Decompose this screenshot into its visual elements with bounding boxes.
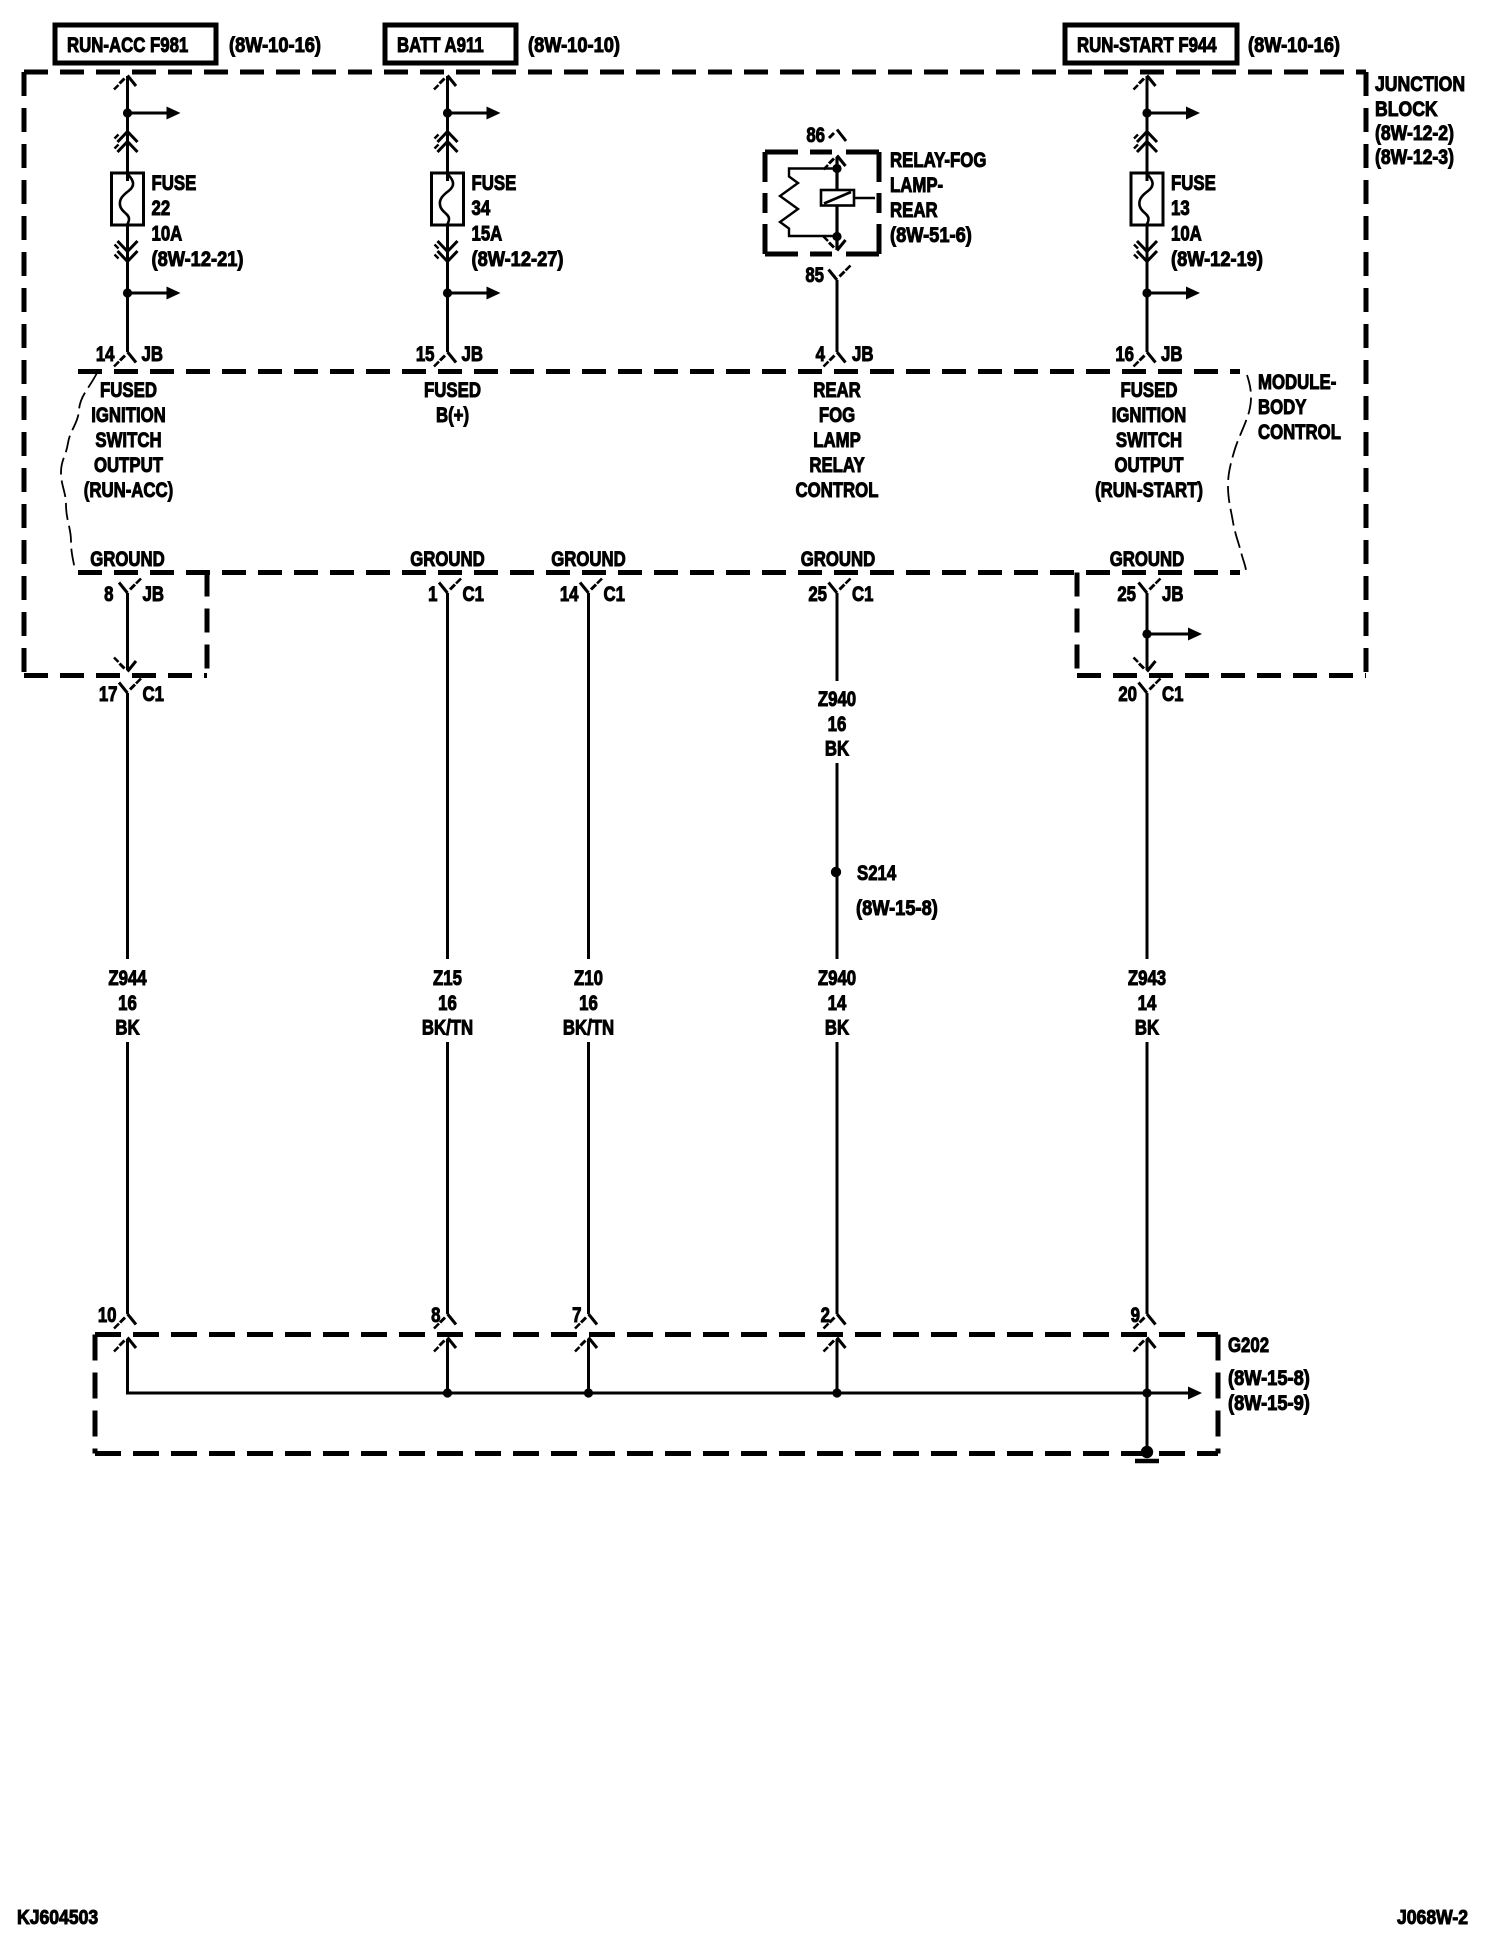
- fuse 34 label: [472, 172, 564, 271]
- svg-text:C1: C1: [604, 583, 626, 606]
- svg-text:Z940: Z940: [818, 967, 856, 990]
- pin 20 C1: [1118, 679, 1184, 707]
- pin 15 JB: [416, 343, 483, 366]
- svg-text:OUTPUT: OUTPUT: [1114, 454, 1183, 477]
- pin 2 (G202): [821, 1304, 846, 1328]
- svg-text:RELAY-FOG: RELAY-FOG: [890, 149, 986, 172]
- svg-text:14: 14: [560, 583, 579, 606]
- svg-text:BK: BK: [115, 1017, 139, 1040]
- svg-text:(8W-51-6): (8W-51-6): [890, 224, 972, 247]
- fuse 13 label: [1171, 172, 1263, 271]
- svg-text:14: 14: [828, 992, 847, 1015]
- svg-text:10A: 10A: [152, 223, 183, 246]
- svg-text:JB: JB: [462, 343, 483, 366]
- svg-text:16: 16: [1115, 343, 1134, 366]
- svg-text:1: 1: [428, 583, 438, 606]
- svg-text:13: 13: [1171, 197, 1190, 220]
- relay internal wire pin86 to pin85: [824, 156, 846, 251]
- relay coil: [821, 190, 875, 206]
- svg-text:(8W-15-8): (8W-15-8): [1228, 1367, 1310, 1390]
- footer drawing number right: [1397, 1906, 1468, 1928]
- svg-text:Z15: Z15: [433, 967, 462, 990]
- svg-text:Z10: Z10: [574, 967, 603, 990]
- svg-text:OUTPUT: OUTPUT: [94, 454, 163, 477]
- relay label: [890, 149, 986, 247]
- pin 16 JB: [1115, 343, 1182, 366]
- svg-text:SWITCH: SWITCH: [1116, 429, 1182, 452]
- svg-text:J068W-2: J068W-2: [1397, 1906, 1468, 1928]
- svg-text:4: 4: [816, 343, 826, 366]
- splice S214: [831, 862, 938, 920]
- svg-text:Z944: Z944: [108, 967, 147, 990]
- svg-text:16: 16: [438, 992, 457, 1015]
- wire JB pin25 branch: [1134, 593, 1203, 672]
- wire Z15 16 BK/TN: [422, 593, 473, 1314]
- node ground junction pin 9 column: [1142, 1388, 1151, 1448]
- svg-text:(8W-10-16): (8W-10-16): [1248, 34, 1340, 57]
- svg-text:IGNITION: IGNITION: [91, 404, 166, 427]
- node relay coil bottom junction: [832, 232, 841, 241]
- module ground labels: [90, 548, 1184, 571]
- svg-text:10: 10: [98, 1304, 117, 1327]
- svg-text:FUSE: FUSE: [472, 172, 517, 195]
- svg-text:16: 16: [828, 713, 847, 736]
- ground G202 label: [1228, 1334, 1310, 1415]
- svg-text:FUSED: FUSED: [1121, 379, 1178, 402]
- svg-text:(8W-15-9): (8W-15-9): [1228, 1392, 1310, 1415]
- node RUN-START F944 feed box: [1065, 25, 1237, 63]
- svg-text:IGNITION: IGNITION: [1112, 404, 1187, 427]
- svg-text:GROUND: GROUND: [1110, 548, 1185, 571]
- svg-text:C1: C1: [1162, 683, 1184, 706]
- ground G202 boundary (dashed): [95, 1335, 1218, 1454]
- junction block label: [1375, 73, 1465, 170]
- node RUN-ACC F981 feed box: [55, 25, 216, 63]
- pin 85 of fog lamp relay: [805, 264, 850, 287]
- fuse 22 label: [152, 172, 244, 271]
- svg-text:LAMP-: LAMP-: [890, 174, 943, 197]
- node BATT A911 feed box: [385, 25, 516, 63]
- svg-text:RUN-START F944: RUN-START F944: [1077, 34, 1217, 57]
- wire Z943 14 BK: [1128, 693, 1166, 1314]
- module-body control boundary (dashed, torn edges): [61, 372, 1251, 573]
- label (8W-10-16) for RUN-START feed: [1248, 34, 1340, 57]
- svg-text:KJ604503: KJ604503: [17, 1906, 98, 1928]
- pin 7 (G202): [572, 1304, 597, 1328]
- svg-text:(8W-10-16): (8W-10-16): [229, 34, 321, 57]
- wire Z940 16 BK (upper): [818, 593, 856, 959]
- svg-text:REAR: REAR: [890, 199, 938, 222]
- wire Z944 16 BK: [108, 693, 147, 1314]
- wire relay control 85 to JB pin 4: [836, 280, 839, 352]
- svg-text:(8W-12-2): (8W-12-2): [1375, 122, 1454, 146]
- svg-text:BODY: BODY: [1258, 396, 1307, 419]
- pin 14 JB: [96, 343, 163, 366]
- pin 10 (G202): [98, 1304, 136, 1328]
- pin 8 JB: [104, 579, 164, 607]
- svg-text:14: 14: [1138, 992, 1157, 1015]
- pin 14 C1: [560, 579, 626, 607]
- pin 86 of fog lamp relay: [806, 124, 846, 147]
- svg-text:Z940: Z940: [818, 688, 856, 711]
- svg-text:(RUN-START): (RUN-START): [1095, 479, 1203, 502]
- svg-text:BLOCK: BLOCK: [1375, 98, 1438, 122]
- svg-text:Z943: Z943: [1128, 967, 1166, 990]
- resistor (relay suppression): [780, 169, 837, 237]
- footer drawing number left: [17, 1906, 98, 1928]
- svg-text:C1: C1: [463, 583, 485, 606]
- svg-text:REAR: REAR: [813, 379, 861, 402]
- pin 8 (G202): [431, 1304, 456, 1328]
- svg-text:(8W-12-21): (8W-12-21): [152, 248, 244, 271]
- svg-text:FUSE: FUSE: [152, 172, 197, 195]
- svg-text:CONTROL: CONTROL: [1258, 421, 1341, 444]
- svg-text:(8W-10-10): (8W-10-10): [528, 34, 620, 57]
- label (8W-10-10) for BATT feed: [528, 34, 620, 57]
- svg-text:S214: S214: [857, 862, 897, 885]
- ground bus wires inside G202: [114, 1338, 1202, 1400]
- wire BATT feed / fuse 34 column: [432, 76, 501, 367]
- pin 1 C1: [428, 579, 484, 607]
- svg-text:BK: BK: [825, 1017, 849, 1040]
- svg-text:MODULE-: MODULE-: [1258, 371, 1336, 394]
- svg-text:JB: JB: [143, 583, 164, 606]
- svg-text:(RUN-ACC): (RUN-ACC): [84, 479, 174, 502]
- svg-text:JB: JB: [142, 343, 163, 366]
- svg-text:15: 15: [416, 343, 435, 366]
- svg-text:GROUND: GROUND: [551, 548, 626, 571]
- svg-text:JB: JB: [1162, 583, 1183, 606]
- wire RUN-START feed / fuse 13 column: [1131, 76, 1200, 367]
- svg-text:(8W-12-3): (8W-12-3): [1375, 146, 1454, 170]
- svg-text:20: 20: [1118, 683, 1137, 706]
- svg-text:G202: G202: [1228, 1334, 1269, 1357]
- relay pin85 exit arrow: [824, 237, 846, 251]
- wire Z10 16 BK/TN: [563, 593, 614, 1314]
- svg-text:GROUND: GROUND: [410, 548, 485, 571]
- svg-text:16: 16: [118, 992, 137, 1015]
- svg-text:17: 17: [99, 683, 118, 706]
- label (8W-10-16) for RUN-ACC feed: [229, 34, 321, 57]
- svg-text:BK: BK: [825, 738, 849, 761]
- pin 9 (G202): [1131, 1304, 1156, 1328]
- svg-text:LAMP: LAMP: [813, 429, 861, 452]
- svg-text:8: 8: [104, 583, 113, 606]
- svg-text:22: 22: [152, 197, 171, 220]
- pin 25 JB: [1117, 579, 1183, 607]
- svg-text:25: 25: [1117, 583, 1136, 606]
- module input labels: [84, 379, 1203, 502]
- svg-text:JB: JB: [852, 343, 873, 366]
- svg-text:FOG: FOG: [819, 404, 855, 427]
- svg-text:14: 14: [96, 343, 115, 366]
- ground symbol G202: [1135, 1446, 1159, 1461]
- svg-text:15A: 15A: [472, 223, 503, 246]
- module-body control label: [1258, 371, 1341, 444]
- junction block boundary (dashed): [24, 72, 1366, 676]
- svg-text:16: 16: [579, 992, 598, 1015]
- pin 25 C1: [808, 579, 874, 607]
- svg-text:C1: C1: [852, 583, 874, 606]
- svg-text:C1: C1: [143, 683, 165, 706]
- svg-text:BATT A911: BATT A911: [397, 34, 484, 57]
- svg-text:FUSED: FUSED: [424, 379, 481, 402]
- wire RUN-ACC feed / fuse 22 column: [112, 76, 181, 367]
- svg-text:(8W-12-27): (8W-12-27): [472, 248, 564, 271]
- svg-text:B(+): B(+): [436, 404, 469, 427]
- svg-text:RUN-ACC F981: RUN-ACC F981: [67, 34, 189, 57]
- svg-text:JB: JB: [1161, 343, 1182, 366]
- relay RELAY-FOG LAMP-REAR (dashed case): [765, 152, 879, 254]
- pin 4 JB: [816, 343, 874, 366]
- svg-text:RELAY: RELAY: [809, 454, 865, 477]
- svg-text:BK/TN: BK/TN: [563, 1017, 614, 1040]
- svg-text:(8W-12-19): (8W-12-19): [1171, 248, 1263, 271]
- svg-text:86: 86: [806, 124, 825, 147]
- svg-text:GROUND: GROUND: [90, 548, 165, 571]
- wire JB pin8 to pin17: [114, 593, 136, 672]
- pin 17 C1: [99, 679, 165, 707]
- svg-text:SWITCH: SWITCH: [95, 429, 161, 452]
- svg-text:(8W-15-8): (8W-15-8): [856, 897, 938, 920]
- svg-text:FUSE: FUSE: [1171, 172, 1216, 195]
- svg-text:BK/TN: BK/TN: [422, 1017, 473, 1040]
- wire Z940 14 BK (lower): [818, 967, 856, 1314]
- svg-text:CONTROL: CONTROL: [796, 479, 879, 502]
- svg-text:34: 34: [472, 197, 491, 220]
- svg-text:FUSED: FUSED: [100, 379, 157, 402]
- node relay coil top junction: [832, 164, 841, 173]
- svg-text:GROUND: GROUND: [801, 548, 876, 571]
- svg-text:25: 25: [808, 583, 827, 606]
- svg-text:85: 85: [805, 264, 824, 287]
- svg-text:BK: BK: [1135, 1017, 1159, 1040]
- svg-text:10A: 10A: [1171, 223, 1202, 246]
- svg-text:JUNCTION: JUNCTION: [1375, 73, 1465, 97]
